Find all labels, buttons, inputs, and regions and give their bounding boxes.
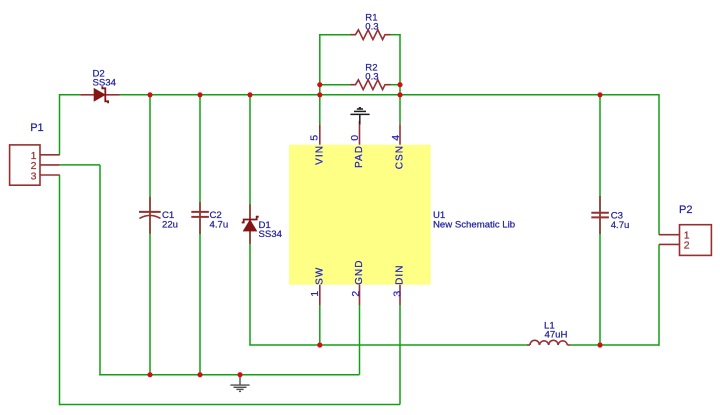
svg-text:DIN: DIN [395, 265, 406, 285]
capacitor C3 [591, 196, 609, 234]
node C1 top [147, 92, 152, 97]
wire P2 pin2 column x=659 [658, 244, 660, 345]
capacitor C2 [191, 202, 209, 234]
wire SW rail y=345 [249, 344, 527, 346]
resistor R2 [350, 80, 390, 90]
svg-text:P2: P2 [679, 204, 692, 216]
node R2 right [397, 82, 402, 87]
svg-text:0.3: 0.3 [365, 72, 378, 83]
wire C1 column x=150 [149, 95, 151, 375]
U1 pin VIN lead [319, 124, 321, 144]
svg-text:2: 2 [684, 239, 690, 251]
ground top (PAD) [350, 108, 369, 125]
wire P1 pin2 drop x=100 [99, 165, 101, 376]
node D1 top [247, 92, 252, 97]
svg-text:22u: 22u [162, 220, 178, 231]
svg-text:GND: GND [354, 260, 365, 285]
node C3 top [597, 92, 602, 97]
ground bottom [230, 375, 249, 392]
wire C3 column x=600 [599, 95, 601, 345]
node L1 C3 [597, 342, 602, 347]
wire D1 column x=250 [249, 95, 251, 345]
node C1 bottom [147, 372, 152, 377]
U1 pin PAD lead [359, 121, 361, 145]
U1 pin GND lead [359, 285, 361, 305]
svg-text:1: 1 [309, 291, 321, 297]
svg-text:CSN: CSN [395, 145, 406, 169]
wire top main horizontal net y=94.8 [60, 94, 660, 96]
svg-text:5: 5 [308, 135, 320, 141]
svg-text:2: 2 [350, 291, 362, 297]
svg-text:4.7u: 4.7u [210, 220, 229, 231]
U1 pin CSN lead [399, 124, 401, 144]
svg-text:47uH: 47uH [545, 330, 568, 341]
svg-text:VIN: VIN [315, 145, 326, 165]
connector P2 [659, 225, 711, 256]
svg-text:0: 0 [349, 135, 361, 141]
U1 pin SW lead [319, 285, 321, 305]
svg-text:3: 3 [31, 171, 37, 183]
svg-text:4: 4 [390, 135, 402, 141]
wire SW pin drop x=319.8 [319, 305, 321, 345]
wire gnd rail y=374.7 [99, 374, 359, 376]
wire C2 column x=200 [199, 95, 201, 375]
wire R loop left x=319.8 [319, 35, 321, 125]
svg-text:SS34: SS34 [93, 78, 117, 89]
svg-text:New Schematic Lib: New Schematic Lib [433, 220, 515, 231]
svg-text:SW: SW [315, 267, 326, 285]
wire R1 branch y=34.7 [319, 34, 401, 36]
wire DIN pin drop x=400 [399, 305, 401, 405]
IC U1 body [289, 145, 431, 285]
connector P1 [10, 145, 60, 185]
wire bottom rail y=404.5 [60, 404, 401, 406]
node R2 left [317, 82, 322, 87]
svg-text:SS34: SS34 [259, 229, 283, 240]
svg-text:PAD: PAD [354, 145, 365, 168]
node C2 bottom [197, 372, 202, 377]
wire GND pin drop x=359.5 [359, 305, 361, 375]
node SW rail [317, 342, 322, 347]
diode D1 [242, 204, 259, 244]
node CSN junction [397, 92, 402, 97]
capacitor C1 [139, 197, 161, 234]
node VIN junction [317, 92, 322, 97]
resistor R1 [350, 30, 390, 40]
inductor L1 [527, 340, 570, 345]
node C2 top [197, 92, 202, 97]
U1 pin DIN lead [399, 285, 401, 305]
wire R loop right x=400 [399, 35, 401, 125]
wire R2 branch y=84.7 [319, 84, 401, 86]
svg-text:4.7u: 4.7u [611, 220, 630, 231]
wire P1 pin1 riser x=59.5 [59, 94, 61, 155]
node ground junction [237, 372, 242, 377]
wire P2 pin1 column x=659 [658, 94, 660, 235]
svg-text:3: 3 [391, 291, 403, 297]
wire P1 pin3 drop x=59.5 [59, 175, 61, 405]
diode D2 [80, 86, 119, 103]
svg-text:0.3: 0.3 [365, 22, 378, 33]
svg-text:P1: P1 [30, 122, 43, 134]
wire P1 pin2 horizontal [60, 164, 100, 166]
